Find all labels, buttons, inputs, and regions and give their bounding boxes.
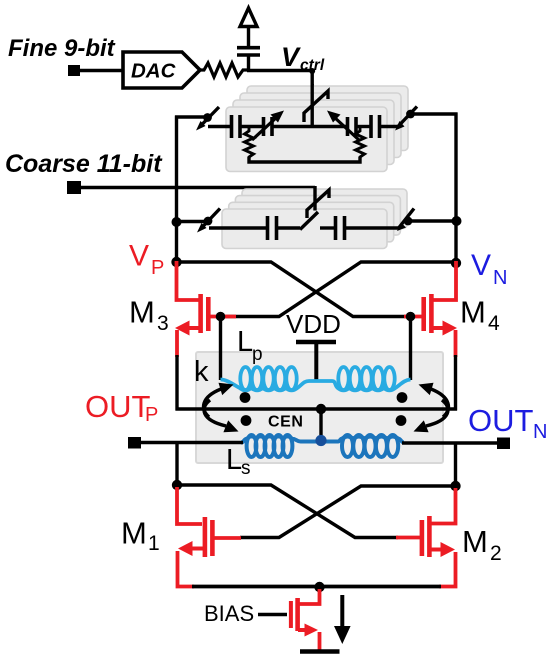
- wire C3 to right switch: [380, 125, 399, 128]
- inductor Lp (primary coil): [221, 367, 411, 390]
- svg-text:L: L: [226, 444, 242, 476]
- VDD supply bar: [296, 340, 336, 345]
- wire Vctrl into bank center (over cards): [311, 84, 314, 128]
- svg-text:p: p: [252, 344, 263, 365]
- wire CEN tap down: [319, 409, 322, 441]
- fine bank card 1 (front): [226, 107, 387, 172]
- wire mid rail (M3/M4 source to CEN): [176, 407, 458, 410]
- wire cross-couple VP to M4 gate: [177, 262, 413, 317]
- node dot Lp left polarity: [240, 392, 251, 403]
- node VN: [451, 258, 461, 268]
- varactor D2 (right, arrow up-left): [327, 111, 359, 141]
- wire coarse control down (over cards): [313, 186, 316, 211]
- wire Vctrl down to fine bank: [311, 71, 314, 128]
- svg-text:V: V: [471, 249, 491, 282]
- wire Ls to OUTN: [402, 441, 498, 444]
- coupling arrows k (right pair): [426, 389, 448, 426]
- svg-text:V: V: [129, 240, 149, 273]
- switch S4 (coarse, center blade): [300, 212, 318, 230]
- wire bottom rail: [192, 585, 441, 589]
- node CEN top: [316, 404, 326, 414]
- wire right rail (VN column): [454, 113, 457, 265]
- node coarse right rail junction: [452, 216, 462, 226]
- transistor M2: [396, 488, 456, 587]
- ground: [300, 649, 340, 654]
- coarse bank card 4: [242, 189, 407, 229]
- svg-text:V: V: [281, 42, 301, 72]
- wire OUTP to Ls: [140, 441, 243, 444]
- svg-text:N: N: [493, 267, 507, 289]
- port Coarse (input square): [67, 181, 81, 194]
- supply triangle (open, up): [240, 8, 257, 27]
- capacitor C3 (fine, right fixed): [369, 115, 373, 138]
- node CEN bottom (on Ls): [315, 435, 326, 446]
- wire capacitor to Vctrl node: [247, 57, 250, 72]
- transistor Q-bias: [291, 589, 320, 650]
- node dot Ls right polarity: [396, 415, 407, 426]
- wire Lp right terminal up to M4 gate: [409, 317, 412, 381]
- varactor D1 (left, arrow up-right): [252, 111, 284, 141]
- node M2 drain: [450, 481, 460, 491]
- port OUTP square: [128, 437, 141, 449]
- switch S2 (fine, right): [395, 107, 417, 131]
- svg-text:L: L: [237, 326, 253, 358]
- inductor Ls (secondary coil): [241, 435, 404, 457]
- svg-text:M: M: [121, 516, 147, 551]
- svg-text:VDD: VDD: [286, 309, 341, 339]
- transistor M3: [175, 261, 236, 357]
- adjustable slash on Vctrl line: [304, 91, 328, 122]
- svg-text:3: 3: [157, 312, 169, 335]
- wire BIAS gate: [258, 613, 287, 616]
- port OUTN square: [497, 438, 510, 450]
- wire varactor D1 to center: [272, 125, 347, 128]
- svg-text:Fine 9-bit: Fine 9-bit: [8, 35, 116, 62]
- node Vctrl corner: [309, 68, 315, 74]
- wire C2 to varactor D1: [240, 125, 263, 128]
- wire M4 source down to mid rail: [454, 355, 457, 411]
- node VP: [171, 257, 181, 267]
- svg-text:N: N: [533, 421, 547, 443]
- wire switch to C2: [208, 125, 231, 128]
- wire cross-couple OUTP to M2 gate: [177, 485, 398, 538]
- wire center to C5: [320, 226, 336, 229]
- wire port to DAC: [80, 69, 124, 72]
- svg-text:Coarse 11-bit: Coarse 11-bit: [5, 150, 163, 178]
- svg-text:CEN: CEN: [268, 414, 304, 431]
- port Fine (input square): [68, 65, 80, 76]
- node dot Lp right polarity: [397, 392, 408, 403]
- switch S1 (fine, left): [196, 107, 219, 131]
- wire triangle to capacitor: [247, 26, 250, 46]
- wire VDD tap: [314, 344, 318, 380]
- wire C5 to right switch: [345, 226, 401, 229]
- svg-text:4: 4: [488, 312, 500, 335]
- node M1 drain: [172, 480, 182, 490]
- node bias tap: [314, 582, 324, 592]
- wire Lp left terminal up to M3 gate: [219, 317, 222, 381]
- wire rail to coarse left switch: [176, 220, 204, 223]
- wire varactor D2 to C3: [356, 125, 371, 128]
- fine bank card 4: [247, 86, 408, 151]
- node dot Ls left polarity: [241, 415, 252, 426]
- wire OUTN branch down: [454, 443, 457, 487]
- current arrow (bias current): [340, 595, 344, 630]
- svg-text:s: s: [241, 458, 251, 479]
- wire OUTP branch down: [175, 443, 178, 487]
- transistor M1: [177, 487, 241, 587]
- switch S3 (coarse, left): [197, 209, 220, 233]
- resistor R2 (fine, left bias): [245, 127, 254, 161]
- coarse bank card 3: [235, 196, 400, 236]
- wire Vctrl horizontal: [247, 69, 313, 72]
- svg-text:M: M: [462, 524, 488, 559]
- svg-text:M: M: [460, 295, 486, 330]
- svg-text:OUT: OUT: [468, 403, 534, 438]
- wire switch to right rail: [412, 112, 458, 115]
- wire Coarse to bank center: [81, 186, 315, 189]
- wire cross-couple VN to M3 gate: [220, 262, 456, 317]
- capacitor C1 (Vctrl filter): [237, 46, 260, 50]
- switch S5 (coarse, right): [397, 209, 414, 232]
- resistor R1 (DAC output): [199, 63, 249, 77]
- fine bank card 2: [233, 100, 394, 165]
- coupling arrows k (left pair): [204, 389, 226, 426]
- transformer box: [196, 352, 443, 463]
- capacitor C4 (coarse, left): [266, 216, 270, 240]
- adjustable slash on coarse control line: [307, 190, 329, 218]
- capacitor C2 (fine, left fixed): [230, 115, 234, 138]
- coarse bank card 1 (front): [222, 209, 387, 249]
- svg-text:BIAS: BIAS: [204, 601, 254, 626]
- wire cross-couple OUTN to M1 gate: [240, 486, 456, 538]
- transistor M4: [404, 261, 457, 357]
- wire C4 to center switch: [277, 226, 301, 229]
- svg-text:2: 2: [490, 542, 502, 565]
- fine bank card 3: [240, 93, 401, 158]
- wire M3 source down to mid rail: [175, 355, 178, 411]
- capacitor C5 (coarse, right): [334, 216, 338, 240]
- svg-text:1: 1: [148, 532, 160, 555]
- svg-text:M: M: [129, 295, 155, 330]
- wire switch to C4: [209, 226, 267, 229]
- svg-text:OUT: OUT: [85, 389, 151, 424]
- svg-text:k: k: [194, 356, 209, 388]
- wire switch to right rail: [410, 219, 458, 222]
- node M4 gate: [406, 312, 416, 322]
- coarse bank card 2: [229, 202, 394, 242]
- node coarse left rail junction: [172, 217, 182, 227]
- wire bottom U of fine bank: [249, 157, 360, 162]
- wire left rail to fine switch: [175, 115, 205, 118]
- svg-text:P: P: [151, 257, 164, 279]
- resistor R3 (fine, right bias): [356, 127, 365, 161]
- wire left rail (VP column): [175, 116, 178, 264]
- svg-text:P: P: [145, 404, 158, 426]
- svg-text:DAC: DAC: [131, 60, 177, 83]
- DAC block U1: [123, 52, 200, 88]
- node M3 gate: [216, 312, 226, 322]
